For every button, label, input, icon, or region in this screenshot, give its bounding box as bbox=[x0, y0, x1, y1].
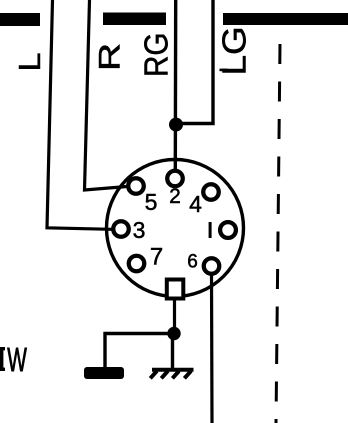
shield bar 1 (cable L) bbox=[0, 13, 40, 26]
svg-text:2: 2 bbox=[169, 185, 181, 208]
svg-text:4: 4 bbox=[189, 191, 202, 217]
wire RG (to pin 2) bbox=[174, 0, 178, 170]
wire to chassis ground bbox=[105, 334, 174, 368]
label LG left tick bbox=[220, 69, 228, 72]
shield bar 2 (cable R/RG) bbox=[103, 13, 166, 26]
pin 7 bbox=[129, 256, 145, 272]
svg-text:L: L bbox=[12, 53, 46, 72]
wire L (to pin 3) bbox=[47, 0, 112, 229]
shield bar 3 (cable LG) bbox=[223, 13, 348, 25]
wire LG (joins RG at junction) bbox=[182, 0, 213, 124]
chassis ground symbol bbox=[84, 367, 124, 379]
wire pin 6 (down off page) bbox=[210, 274, 214, 423]
svg-text:W: W bbox=[7, 341, 27, 378]
svg-text:R: R bbox=[94, 43, 127, 71]
pin 1 bbox=[220, 222, 236, 238]
pin 5 bbox=[128, 178, 144, 194]
wire to earth ground bbox=[171, 334, 174, 370]
wire R (to pin 5) bbox=[85, 0, 128, 190]
svg-text:7: 7 bbox=[150, 244, 163, 271]
dashed boundary line bbox=[276, 44, 280, 423]
svg-text:5: 5 bbox=[145, 189, 158, 215]
pin 1 label bbox=[209, 222, 212, 238]
earth ground symbol bbox=[150, 370, 193, 379]
svg-text:6: 6 bbox=[187, 252, 198, 273]
svg-text:LG: LG bbox=[216, 26, 253, 75]
connector shell circle bbox=[107, 160, 244, 297]
svg-text:3: 3 bbox=[133, 217, 146, 243]
pin 4 bbox=[203, 184, 219, 200]
text CW (cut at left edge) bbox=[0, 347, 5, 371]
pin 3 bbox=[113, 221, 129, 237]
pin 2 bbox=[167, 171, 183, 187]
svg-text:RG: RG bbox=[138, 32, 175, 77]
wire shell ground bbox=[173, 298, 176, 333]
pin 6 bbox=[204, 258, 220, 274]
key notch (connector keyway) bbox=[167, 280, 184, 299]
junction dot (RG/LG) bbox=[169, 118, 183, 132]
junction dot (ground) bbox=[167, 327, 180, 340]
